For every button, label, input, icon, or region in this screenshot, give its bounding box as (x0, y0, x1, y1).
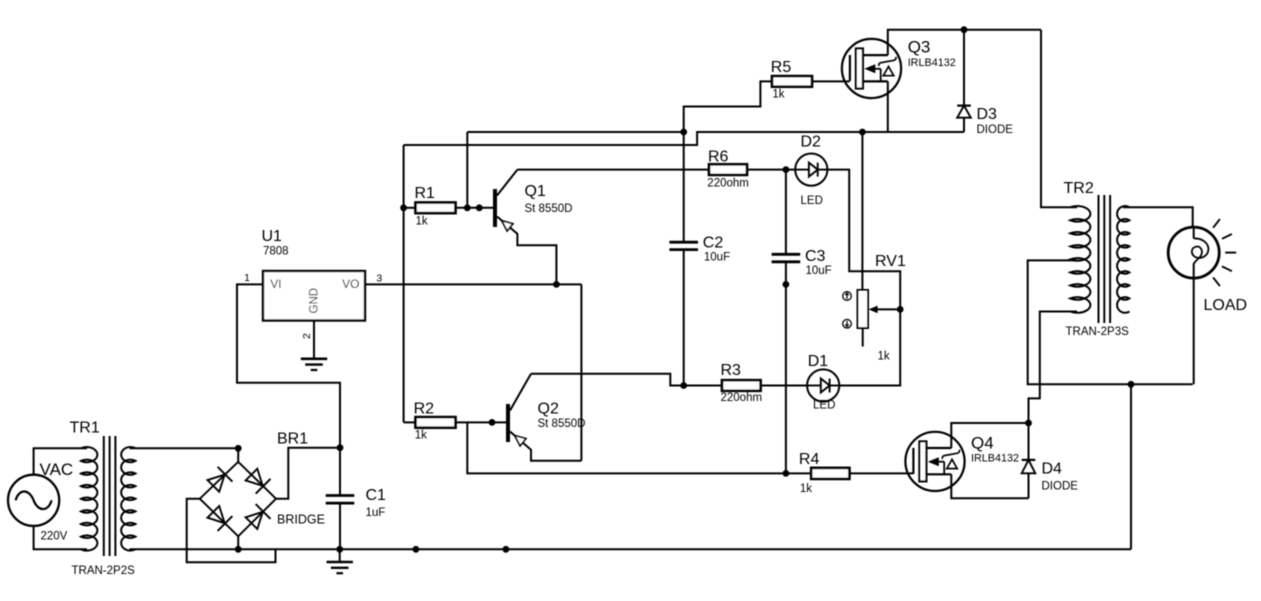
node C3 top junction (783, 166, 790, 173)
node C2 top junction (680, 129, 687, 136)
wire C2 node to R5 (684, 81, 772, 132)
svg-text:R3: R3 (721, 362, 742, 379)
wire D3 top (963, 30, 965, 106)
svg-text:LED: LED (801, 195, 823, 207)
diode D3 (957, 106, 1013, 136)
wire RV1 wiper to D1 (839, 309, 900, 385)
wire D2 to RV1 top branch (827, 170, 900, 310)
svg-text:Q3: Q3 (908, 38, 931, 57)
svg-text:Q2: Q2 (538, 400, 559, 417)
wire Q3 source line (697, 131, 964, 133)
AC source VAC (220V) (8, 460, 73, 543)
resistor R5 (1k) (771, 59, 812, 101)
BR1 diode bottom-right (246, 504, 271, 529)
svg-text:220V: 220V (41, 531, 68, 543)
wire Q2 collector (531, 374, 722, 386)
wire D4 top (1028, 423, 1030, 460)
node C3 mid dot (783, 281, 790, 288)
svg-text:Q4: Q4 (971, 434, 994, 453)
wire BR1 node to C1 (339, 448, 341, 496)
wire R6 to D2 (747, 169, 795, 171)
node R4 left junction (783, 470, 790, 477)
wire R1 to Q1 base (456, 207, 494, 209)
wire VAC bottom to TR1 primary (34, 526, 87, 549)
capacitor C3 (10uF) (772, 248, 832, 277)
svg-text:BR1: BR1 (277, 431, 308, 448)
svg-text:TR2: TR2 (1064, 180, 1094, 197)
wire VAC top to TR1 primary (34, 448, 87, 474)
transformer TR2 label (1064, 180, 1130, 338)
svg-text:1uF: 1uF (366, 507, 386, 519)
wire R4 to Q4 gate (849, 472, 913, 474)
wire C3 top (785, 170, 787, 255)
BR1 diode bottom-left (207, 506, 232, 531)
wire C3 bottom (785, 262, 787, 474)
svg-text:BRIDGE: BRIDGE (277, 512, 325, 526)
svg-text:1k: 1k (878, 351, 890, 363)
bridge rectifier BR1 outline (200, 448, 276, 549)
svg-text:Q1: Q1 (525, 183, 546, 200)
svg-text:2: 2 (301, 333, 313, 339)
svg-text:D2: D2 (801, 134, 822, 151)
svg-text:D3: D3 (977, 106, 998, 123)
wire C1 to ground rail (339, 503, 341, 549)
svg-text:10uF: 10uF (806, 265, 832, 277)
BR1 diode top-right (246, 469, 271, 494)
capacitor C1 (1uF) (326, 487, 386, 519)
node Q1 base junction (464, 204, 471, 211)
svg-text:220ohm: 220ohm (721, 392, 763, 404)
svg-text:LOAD: LOAD (1204, 297, 1248, 314)
node Q1 base junction 2 (476, 204, 483, 211)
svg-text:St 8550D: St 8550D (538, 418, 586, 430)
svg-text:C1: C1 (366, 487, 387, 504)
capacitor C2 (10uF) (669, 234, 730, 263)
node RV1 top rail junction (859, 129, 866, 136)
TR2 primary winding (1070, 206, 1090, 313)
transistor Q3 IRLB4132 (842, 38, 956, 99)
svg-text:St 8550D: St 8550D (525, 203, 573, 215)
svg-text:R6: R6 (708, 149, 729, 166)
svg-text:IRLB4132: IRLB4132 (971, 453, 1019, 465)
svg-text:1k: 1k (416, 216, 428, 228)
ground symbol U1 (301, 359, 327, 370)
TR2 secondary winding (1117, 206, 1129, 313)
wire 8V rail vertical (403, 145, 405, 422)
wire Q1 base drop (466, 132, 468, 208)
wire bridge left vertex detour (187, 499, 276, 563)
wire U1 GND pin (313, 321, 315, 359)
wire Q1 collector to R6 (517, 169, 709, 171)
wire TR1 secondary bottom rail (130, 548, 276, 550)
wire ground rail (276, 548, 1132, 550)
resistor R4 (1k) (799, 451, 850, 495)
svg-text:C2: C2 (703, 234, 724, 251)
transistor Q1 St8550D (493, 170, 572, 285)
wire Q3 source (887, 81, 889, 132)
svg-text:10uF: 10uF (704, 251, 730, 263)
wire C2 top (683, 132, 685, 242)
svg-text:VI: VI (270, 277, 281, 291)
svg-text:C3: C3 (805, 248, 826, 265)
LOAD rays (1213, 219, 1236, 286)
svg-text:R2: R2 (414, 401, 435, 418)
wire R3 to D1 (761, 385, 808, 387)
wire C2 bottom (683, 250, 685, 386)
svg-text:R4: R4 (799, 451, 820, 468)
wire Q4 source (951, 474, 1028, 498)
svg-text:IRLB4132: IRLB4132 (908, 57, 956, 69)
RV1 up indicator (843, 292, 852, 301)
svg-text:1: 1 (244, 272, 250, 284)
node C2 bottom junction (680, 382, 687, 389)
svg-text:RV1: RV1 (875, 253, 906, 270)
BR1 labels (277, 431, 325, 527)
node Q4 drain junction (1025, 420, 1032, 427)
svg-text:1k: 1k (415, 429, 427, 441)
wire Q2 emitter riser (580, 284, 582, 460)
svg-text:TRAN-2P2S: TRAN-2P2S (72, 565, 136, 577)
BR1 diode top-left (207, 467, 232, 492)
svg-text:VAC: VAC (40, 460, 74, 479)
svg-text:1k: 1k (772, 89, 784, 101)
svg-text:U1: U1 (262, 228, 283, 245)
wire 8V rail top (404, 132, 964, 145)
potentiometer RV1 (1k) (858, 253, 906, 363)
TR1 primary winding (81, 447, 97, 551)
wire TR2 center tap (1028, 260, 1193, 384)
TR2 core (1099, 195, 1111, 323)
svg-text:R1: R1 (415, 185, 436, 202)
wire TR1 secondary top to bridge (130, 447, 239, 449)
U1 pin 3 number (376, 273, 382, 285)
node rail dot B (503, 546, 510, 553)
TR1 secondary winding (121, 447, 135, 551)
wire D4 bottom (1028, 473, 1030, 498)
wire rail upper branch (467, 131, 683, 133)
regulator U1 7808 box (262, 228, 366, 320)
wire Q4 drain (951, 423, 1028, 448)
U1 pin 2 number (301, 333, 313, 339)
svg-text:DIODE: DIODE (1042, 481, 1079, 493)
resistor R1 (1k) (404, 185, 456, 228)
TR1 core (104, 436, 116, 556)
diode D1 LED (807, 353, 839, 412)
transformer TR1 label (70, 420, 136, 578)
node R1 left junction (400, 204, 407, 211)
node bridge top junction (235, 445, 242, 452)
wire LOAD bottom drop (1130, 384, 1132, 549)
svg-text:3: 3 (376, 273, 382, 285)
svg-text:TR1: TR1 (70, 420, 100, 437)
svg-text:7808: 7808 (263, 245, 289, 257)
svg-text:D1: D1 (808, 353, 829, 370)
transistor Q2 St8550D (506, 374, 585, 461)
resistor R6 (220ohm) (707, 149, 749, 190)
node bridge bottom junction (235, 546, 242, 553)
wire D3 bottom (963, 118, 965, 132)
svg-text:DIODE: DIODE (977, 124, 1014, 136)
wire top rail to TR2 primary (1041, 30, 1077, 208)
transistor Q4 IRLB4132 (905, 432, 1019, 491)
node C1 ground junction (336, 546, 343, 553)
wire TR2 secondary top to LOAD (1123, 207, 1193, 227)
wire R5 to Q3 gate (812, 80, 850, 82)
wire U1 VO rail (365, 283, 581, 285)
svg-text:VO: VO (342, 277, 359, 291)
node RV1 wiper junction (897, 306, 904, 313)
node BR1/C1/U1 junction (337, 444, 344, 451)
node Q2 base dot (489, 419, 496, 426)
U1 pin 1 number (244, 272, 250, 284)
ground symbol at rail (327, 549, 353, 573)
wire bridge right vertex to C1 node (276, 448, 340, 499)
resistor R2 (1k) (404, 401, 456, 442)
RV1 down indicator (843, 319, 852, 328)
RV1 wiper arrow (869, 306, 901, 314)
wire U1 VI pin to bridge node (237, 284, 340, 447)
wire TR2 primary bottom (1029, 312, 1078, 424)
node rail dot A (413, 546, 420, 553)
node LOAD bottom junction (1128, 381, 1135, 388)
resistor R3 (220ohm) (721, 362, 763, 404)
node D3 top junction (961, 26, 968, 33)
svg-text:R5: R5 (771, 59, 792, 76)
svg-text:GND: GND (308, 288, 320, 314)
svg-text:TRAN-2P3S: TRAN-2P3S (1066, 326, 1130, 338)
lamp LOAD (1168, 227, 1247, 384)
diode D4 (1022, 460, 1079, 493)
wire R2 to Q2 base (456, 421, 507, 423)
svg-text:220ohm: 220ohm (707, 177, 749, 189)
svg-text:1k: 1k (800, 483, 812, 495)
wire Q2 base to R4 line (467, 422, 811, 473)
svg-text:LED: LED (813, 400, 835, 412)
diode D2 LED (795, 134, 827, 207)
wire Q3 drain (888, 30, 1041, 55)
node Q1 emitter junction (553, 281, 560, 288)
wire rail to RV1 top (861, 132, 863, 290)
svg-text:D4: D4 (1042, 460, 1063, 477)
